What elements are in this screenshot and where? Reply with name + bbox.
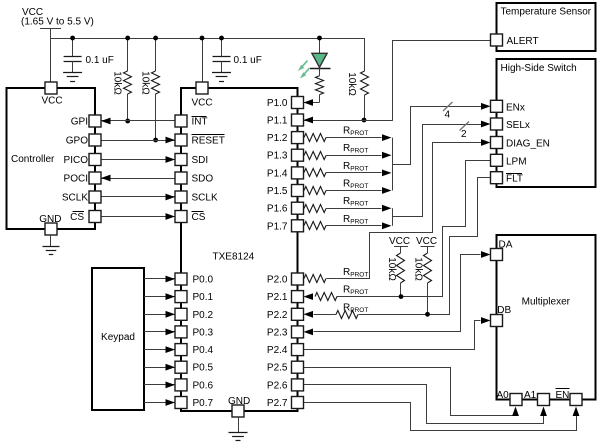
svg-text:CS: CS [192,212,206,223]
svg-text:INT: INT [192,117,208,128]
svg-text:DB: DB [497,305,511,316]
svg-text:P0.2: P0.2 [193,310,214,321]
svg-text:EN: EN [556,390,570,401]
svg-text:P0.3: P0.3 [193,327,214,338]
svg-text:Keypad: Keypad [101,332,135,343]
svg-text:A0: A0 [497,390,510,401]
svg-text:GPO: GPO [66,136,88,147]
svg-text:P0.1: P0.1 [193,292,214,303]
svg-text:RESET: RESET [192,136,225,147]
svg-text:GND: GND [228,396,250,407]
svg-text:ALERT: ALERT [507,36,539,47]
svg-text:PICO: PICO [64,155,89,166]
svg-text:SELx: SELx [506,120,530,131]
svg-text:0.1 uF: 0.1 uF [86,55,114,66]
svg-text:Controller: Controller [11,154,55,165]
svg-text:High-Side Switch: High-Side Switch [501,63,577,74]
svg-text:P0.6: P0.6 [193,380,214,391]
svg-text:POCI: POCI [64,174,88,185]
svg-text:CS: CS [70,212,84,223]
svg-text:SDO: SDO [192,174,214,185]
svg-text:P2.3: P2.3 [267,327,288,338]
svg-text:P0.4: P0.4 [193,345,214,356]
svg-text:P2.5: P2.5 [267,363,288,374]
svg-text:ENx: ENx [506,102,525,113]
svg-text:LPM: LPM [506,156,527,167]
svg-text:0.1 uF: 0.1 uF [234,55,262,66]
svg-text:Multiplexer: Multiplexer [522,296,571,307]
svg-text:P2.7: P2.7 [267,398,288,409]
svg-text:SCLK: SCLK [192,193,218,204]
svg-text:P2.0: P2.0 [267,275,288,286]
svg-text:FLT: FLT [506,174,523,185]
svg-text:P1.6: P1.6 [267,204,288,215]
svg-text:TXE8124: TXE8124 [213,252,255,263]
svg-text:P2.6: P2.6 [267,380,288,391]
svg-text:P2.2: P2.2 [267,310,288,321]
svg-text:GND: GND [39,214,61,225]
svg-text:VCC: VCC [389,236,410,247]
svg-text:P1.2: P1.2 [267,133,288,144]
svg-text:DIAG_EN: DIAG_EN [506,139,550,150]
svg-text:SDI: SDI [192,155,209,166]
svg-text:10kΩ: 10kΩ [346,72,357,96]
svg-text:4: 4 [445,110,451,121]
svg-text:10kΩ: 10kΩ [413,257,424,281]
svg-text:VCC: VCC [192,98,213,109]
svg-text:P1.7: P1.7 [267,221,288,232]
svg-text:P1.0: P1.0 [267,98,288,109]
svg-text:SCLK: SCLK [62,193,88,204]
svg-text:Temperature Sensor: Temperature Sensor [501,7,592,18]
svg-text:VCC: VCC [416,236,437,247]
svg-text:2: 2 [461,129,467,140]
svg-text:GPI: GPI [71,117,88,128]
svg-text:P2.4: P2.4 [267,345,288,356]
svg-text:VCC: VCC [41,96,62,107]
svg-text:A1: A1 [524,390,537,401]
svg-text:P1.3: P1.3 [267,151,288,162]
svg-text:P0.7: P0.7 [193,398,214,409]
svg-text:P2.1: P2.1 [267,292,288,303]
svg-text:10kΩ: 10kΩ [139,71,150,95]
svg-text:P1.5: P1.5 [267,186,288,197]
svg-text:P1.1: P1.1 [267,116,288,127]
svg-text:10kΩ: 10kΩ [111,71,122,95]
svg-text:10kΩ: 10kΩ [386,257,397,281]
svg-text:DA: DA [499,240,513,251]
svg-text:P0.5: P0.5 [193,363,214,374]
svg-text:P1.4: P1.4 [267,168,288,179]
svg-text:P0.0: P0.0 [193,275,214,286]
svg-text:(1.65 V to 5.5 V): (1.65 V to 5.5 V) [21,17,94,28]
